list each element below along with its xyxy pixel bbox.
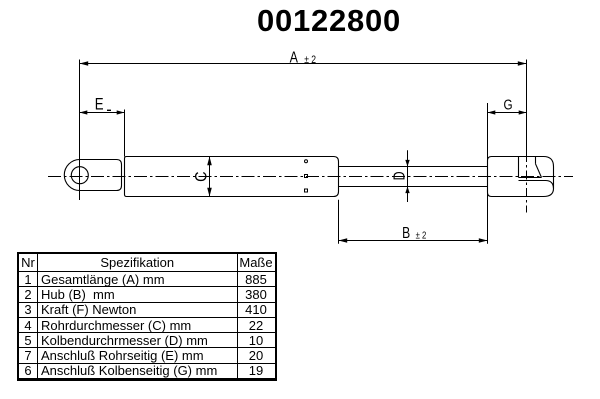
extension line B left: [338, 200, 340, 244]
tube mark hole: [305, 160, 308, 163]
bracket centerline vertical: [526, 153, 528, 213]
tube mark mid: [305, 175, 308, 178]
svg-text:G: G: [504, 96, 513, 113]
bracket slot right wall: [535, 157, 537, 164]
arrow A right: [518, 61, 527, 66]
extension line left A/E through eyelet: [79, 60, 81, 201]
svg-text:B: B: [402, 224, 410, 242]
arrow B left: [339, 238, 348, 243]
arrow D top: [405, 160, 409, 167]
bracket hook: [519, 181, 554, 189]
dimension line G: [488, 112, 527, 114]
arrow G left: [488, 110, 496, 114]
dimension line B: [339, 240, 488, 242]
svg-text:D: D: [391, 171, 409, 180]
arrow B right: [479, 238, 488, 243]
centerline: [48, 176, 573, 178]
arrow E right: [117, 110, 125, 114]
part number title: [0, 5, 600, 36]
arrow C bottom: [207, 188, 212, 197]
tube mark low: [305, 189, 308, 192]
arrow D bottom: [405, 187, 409, 194]
dimension line E: [80, 112, 125, 114]
dimension line A: [80, 63, 527, 65]
bracket slot diagonal: [536, 164, 542, 178]
extension line E right: [124, 110, 126, 157]
piston rod bottom: [339, 186, 488, 188]
svg-text:± 2: ± 2: [416, 229, 427, 240]
bracket slot left wall: [518, 157, 520, 178]
dimension line C: [209, 157, 211, 197]
extension line right A/G: [526, 60, 528, 154]
label E tolerance: [107, 110, 111, 111]
extension line G left / bracket left edge / B right: [487, 103, 489, 244]
svg-text:C: C: [192, 171, 210, 181]
eyelet tab: [64, 160, 121, 191]
arrow A left: [80, 61, 89, 66]
bracket slot floor: [519, 177, 542, 179]
dimension line D: [407, 150, 409, 202]
svg-text:± 2: ± 2: [304, 54, 316, 66]
specification table: [17, 252, 277, 381]
eyelet hole: [71, 167, 88, 184]
arrow E left: [80, 110, 88, 114]
arrow G right: [519, 110, 527, 114]
svg-text:E: E: [95, 95, 104, 114]
arrow C top: [207, 157, 212, 166]
end bracket outline: [488, 157, 554, 197]
svg-text:A: A: [290, 49, 299, 67]
tube: [125, 157, 339, 197]
piston rod top: [339, 166, 488, 168]
